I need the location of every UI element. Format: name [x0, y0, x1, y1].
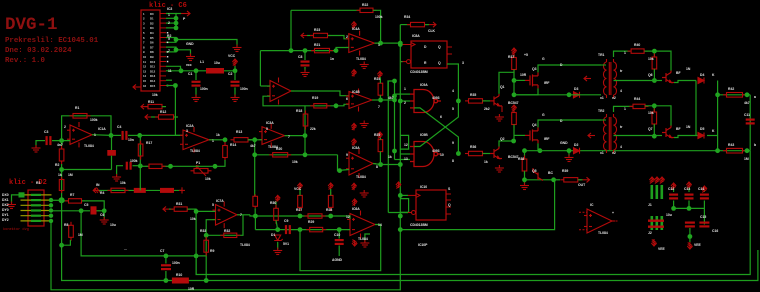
- svg-text:VCC: VCC: [228, 54, 236, 58]
- junction dot caps b: [687, 206, 692, 211]
- svg-text:IC4B: IC4B: [352, 90, 360, 94]
- capacitor C9 series: [285, 225, 291, 234]
- connector D2 dot column: [49, 198, 53, 202]
- junction dot R16 left: [138, 164, 143, 169]
- op-amp IC5A: [346, 149, 376, 178]
- ground at D1: [273, 248, 282, 255]
- junction dot power row A: [179, 68, 184, 73]
- junction dot y94 gnd node: [567, 92, 572, 97]
- diode D2 on y150: [574, 148, 580, 154]
- svg-text:5: 5: [168, 37, 170, 41]
- resistor R2b vertical: [59, 177, 64, 193]
- svg-text:R25: R25: [374, 133, 380, 137]
- wire y216 to y229 link: [254, 216, 256, 230]
- svg-text:11: 11: [143, 60, 146, 64]
- svg-text:Q3: Q3: [532, 67, 537, 71]
- svg-text:10k: 10k: [648, 57, 654, 61]
- svg-text:AGND: AGND: [332, 258, 343, 262]
- svg-text:IC1A: IC1A: [98, 127, 106, 131]
- svg-text:1k: 1k: [484, 160, 488, 164]
- op-amp IC7A: [213, 202, 241, 229]
- svg-text:10n: 10n: [128, 138, 134, 142]
- wire IC8 reset: [400, 61, 402, 63]
- junction dot clk net: [398, 41, 403, 46]
- white pin-end dots C6: [167, 32, 169, 86]
- junction dot v394 b: [392, 98, 397, 103]
- wire D2 row1 to ground: [12, 195, 22, 203]
- svg-text:3: 3: [462, 61, 464, 65]
- junction dot y179 a: [522, 177, 527, 182]
- capacitor C4 series: [111, 134, 121, 136]
- svg-text:14: 14: [378, 223, 382, 227]
- svg-text:1: 1: [404, 87, 406, 91]
- junction dot pin15: [173, 83, 178, 88]
- svg-text:R35: R35: [470, 93, 476, 97]
- header J1 pins: [651, 185, 664, 199]
- svg-text:4093: 4093: [432, 149, 440, 153]
- svg-text:R30: R30: [270, 201, 276, 205]
- svg-text:14: 14: [143, 74, 147, 78]
- row y179: [525, 179, 554, 181]
- svg-text:100k: 100k: [90, 118, 98, 122]
- svg-text:4k7: 4k7: [744, 101, 750, 105]
- svg-text:R12: R12: [160, 110, 166, 114]
- ground IC6 out: [365, 234, 370, 242]
- svg-text:100n: 100n: [172, 261, 180, 265]
- ground at node B2: [103, 211, 105, 219]
- svg-text:R21: R21: [314, 43, 320, 47]
- wire TR1 left bottom stub: [605, 94, 607, 96]
- svg-text:DY2: DY2: [2, 218, 9, 222]
- op-amp IC4A: [346, 31, 378, 56]
- svg-text:10k: 10k: [648, 111, 654, 115]
- svg-text:4: 4: [620, 145, 622, 149]
- wire C6 pin6 to ground: [176, 40, 237, 47]
- svg-text:+5: +5: [524, 53, 528, 57]
- junction dot IC4A out net: [378, 41, 383, 46]
- junction dot rail3 a: [59, 243, 64, 248]
- power arrow IC6 below: [352, 240, 357, 246]
- svg-text:G: G: [542, 57, 545, 61]
- wire y94 left part: [514, 94, 601, 96]
- resistor R14 feedback vertical: [224, 140, 226, 143]
- svg-text:a: a: [754, 95, 756, 99]
- spare op-amp IC11: [584, 209, 615, 233]
- transistor Q6: [662, 71, 674, 83]
- junction dot y229 c: [337, 227, 342, 232]
- svg-text:R24: R24: [374, 77, 380, 81]
- junction dot power row B: [194, 68, 199, 73]
- power arrows mid column b: [351, 139, 356, 146]
- junction dot rail3 c: [204, 278, 209, 283]
- svg-text:b: b: [754, 143, 756, 147]
- capacitor C8 shunt: [304, 51, 306, 60]
- junction dot y150 gnd node: [567, 148, 572, 153]
- svg-text:R3: R3: [36, 181, 40, 185]
- wire trim row: [171, 165, 216, 167]
- capacitor C4b polarized: [111, 135, 113, 150]
- row y154 with R20: [255, 154, 338, 156]
- svg-text:D5: D5: [700, 127, 704, 131]
- svg-text:TL084: TL084: [358, 237, 368, 241]
- power arrow above R27: [297, 183, 302, 189]
- svg-text:Dne: 03.02.2024: Dne: 03.02.2024: [5, 47, 72, 55]
- ground at D2: [7, 202, 16, 209]
- power arrow above IC10: [396, 182, 401, 188]
- power arrow down C15: [687, 242, 692, 249]
- svg-text:7: 7: [378, 105, 380, 109]
- svg-text:TL084: TL084: [190, 149, 200, 153]
- svg-text:klic - D2: klic - D2: [9, 179, 47, 187]
- resistor R9 vertical: [205, 235, 207, 280]
- resistor R17 vertical: [138, 141, 143, 160]
- junction dot C6 pin6: [174, 37, 179, 42]
- capacitor C3 series: [46, 136, 52, 145]
- svg-text:22k: 22k: [310, 127, 316, 131]
- svg-text:4k7: 4k7: [250, 144, 256, 148]
- svg-text:1k: 1k: [388, 155, 392, 159]
- wire top feedback IC4: [290, 10, 292, 50]
- svg-text:R27: R27: [296, 208, 302, 212]
- junction dot bA base: [652, 78, 657, 83]
- resistor R22: [357, 8, 377, 12]
- svg-text:C13: C13: [684, 187, 690, 191]
- arrows above J1: [649, 177, 654, 183]
- junction dot R2 bottom: [59, 167, 64, 172]
- junction dot y179 b: [551, 177, 556, 182]
- op-amp IC1A: [67, 122, 95, 147]
- svg-text:Q: Q: [448, 203, 451, 207]
- wire fb to inv input: [206, 220, 215, 236]
- wire TR1 base row: [614, 80, 655, 82]
- svg-text:IN: IN: [96, 183, 100, 187]
- svg-text:10R: 10R: [188, 287, 195, 291]
- Q3 drain wire: [538, 65, 601, 72]
- svg-text:10u: 10u: [110, 223, 116, 227]
- resistor R50 vertical: [253, 194, 258, 208]
- wire above D2 with parts: [99, 189, 182, 191]
- junction dot Q4 source: [538, 148, 543, 153]
- vertical node D: [304, 106, 306, 155]
- svg-text:TL084: TL084: [356, 57, 366, 61]
- resistor R29: [306, 227, 326, 231]
- svg-text:x2: x2: [612, 96, 616, 100]
- wire TR1 left top: [601, 64, 606, 66]
- svg-text:IC9B: IC9B: [420, 133, 428, 137]
- svg-text:13: 13: [404, 157, 408, 161]
- svg-text:VEE: VEE: [694, 243, 702, 247]
- svg-text:IC2A: IC2A: [186, 124, 194, 128]
- svg-text:Q1: Q1: [500, 85, 505, 89]
- svg-text:L1: L1: [200, 60, 204, 64]
- zener D1: [274, 235, 283, 241]
- svg-text:VCC: VCC: [294, 187, 302, 191]
- svg-text:CD4013BM: CD4013BM: [410, 70, 428, 74]
- transistor Q2: [490, 147, 502, 159]
- resistor R44: [630, 104, 649, 108]
- svg-text:D14: D14: [150, 79, 156, 83]
- svg-text:D5: D5: [150, 36, 154, 40]
- transistor Q5: [533, 168, 543, 181]
- junction dot IC1A output: [109, 133, 114, 138]
- ground mid column a: [360, 121, 369, 128]
- transistor Q1: [490, 94, 502, 106]
- junction dot IC7 fb: [204, 233, 209, 238]
- svg-text:1: 1: [624, 107, 626, 111]
- mosfet Q3: [525, 72, 538, 88]
- transformer TR1: [603, 59, 616, 98]
- svg-text:4: 4: [452, 89, 454, 93]
- capacitor C10 to label: [338, 230, 340, 239]
- IC10 flip-flop box bottom: [416, 190, 446, 220]
- wire C6 pin2 stub: [166, 17, 176, 19]
- svg-text:10u: 10u: [666, 213, 672, 217]
- op-amp IC4B: [346, 89, 375, 112]
- wire rail1: [81, 211, 206, 256]
- svg-text:R22: R22: [362, 3, 368, 7]
- connector SV1 klic-C6 box: [141, 10, 160, 91]
- resistor R8 vertical: [69, 222, 74, 241]
- ground branch at C4c: [117, 166, 123, 176]
- wire Q7 emitter row: [674, 136, 700, 138]
- wire TR2 right top to R44: [614, 106, 634, 112]
- feedback loop IC6: [300, 225, 381, 271]
- svg-text:C9: C9: [284, 219, 288, 223]
- svg-text:100n: 100n: [200, 87, 208, 91]
- svg-text:D2: D2: [574, 143, 578, 147]
- wire D2 out right: [61, 200, 63, 245]
- arrow flag R39: [583, 177, 590, 182]
- row to IC4B input: [305, 104, 349, 106]
- row y50 long: [260, 50, 337, 52]
- wire rail4: [51, 25, 400, 290]
- svg-text:IC6A: IC6A: [352, 207, 360, 211]
- wire bB collector: [645, 106, 671, 126]
- resistor R37b vertical: [513, 111, 515, 113]
- wire Q6 emitter row: [674, 81, 696, 83]
- svg-text:1: 1: [94, 133, 96, 137]
- connector SV1 pins: [160, 14, 166, 86]
- junction dot y94 right: [745, 92, 750, 97]
- svg-text:1k: 1k: [58, 173, 62, 177]
- resistor R11 row with arrow: [141, 104, 147, 109]
- svg-text:100k: 100k: [130, 159, 138, 163]
- wire opX output: [291, 91, 349, 96]
- svg-text:R23: R23: [314, 28, 320, 32]
- power arrow IC4 bottom: [351, 70, 356, 77]
- junction dot y216 c: [328, 214, 333, 219]
- resistor R32: [220, 233, 240, 237]
- wire v394 top stub: [388, 81, 395, 96]
- resistor R37 vertical: [513, 55, 515, 57]
- junction dot IC4B out: [378, 98, 383, 103]
- svg-text:IRF: IRF: [544, 81, 549, 85]
- svg-text:R32: R32: [224, 229, 230, 233]
- vertical net v394: [394, 81, 396, 160]
- wire node C to IC3A: [248, 139, 262, 141]
- resistor R39: [554, 179, 560, 181]
- svg-text:15: 15: [143, 79, 147, 83]
- resistor R4: [108, 188, 129, 192]
- resistor R12 row with arrow: [145, 114, 151, 119]
- diode D5: [698, 133, 704, 139]
- svg-text:R43: R43: [728, 143, 734, 147]
- wire IC4A inv in: [336, 48, 349, 51]
- svg-text:D3: D3: [574, 87, 578, 91]
- wire IC8 q out: [447, 64, 458, 101]
- connector SV1 pin labels: [143, 12, 156, 88]
- capacitor C12: [673, 188, 675, 192]
- svg-text:10R: 10R: [520, 73, 527, 77]
- ground at C3: [36, 141, 38, 147]
- resistor R40: [628, 49, 648, 53]
- svg-text:D8: D8: [150, 50, 154, 54]
- wire TR1 right top to R40: [614, 51, 631, 57]
- junction dot IC4A in: [334, 48, 339, 53]
- svg-text:10k: 10k: [152, 93, 158, 97]
- svg-text:C12: C12: [668, 187, 674, 191]
- svg-text:D15: D15: [150, 84, 156, 88]
- wire opX input B loop: [263, 96, 305, 106]
- svg-text:BC547: BC547: [508, 101, 519, 105]
- wire long mid net: [400, 180, 554, 230]
- resistor R24 vertical: [378, 80, 383, 99]
- svg-text:2: 2: [168, 21, 170, 25]
- svg-text:...: ...: [124, 247, 127, 251]
- svg-text:10u: 10u: [214, 61, 220, 65]
- power arrow above R28: [328, 183, 333, 189]
- svg-text:D10: D10: [150, 60, 156, 64]
- small loop right of v400 a: [400, 135, 408, 149]
- svg-text:Q6: Q6: [648, 73, 653, 77]
- wire C6 power row: [166, 70, 235, 72]
- arrow flag TR1: [584, 76, 591, 81]
- junction dot node D: [303, 133, 308, 138]
- junction dot v400 gate: [398, 99, 403, 104]
- svg-text:D9: D9: [150, 55, 154, 59]
- svg-text:D7: D7: [150, 45, 154, 49]
- svg-text:Rev.: 1.0: Rev.: 1.0: [5, 57, 45, 65]
- wire IC4A out: [374, 42, 400, 44]
- svg-text:C3: C3: [44, 130, 48, 134]
- svg-text:3: 3: [186, 129, 188, 133]
- junction dot trim left: [168, 164, 173, 169]
- svg-text:Q7: Q7: [648, 127, 653, 131]
- resistor R10 filled on rail3: [172, 278, 189, 284]
- svg-text:D1: D1: [271, 233, 275, 237]
- cross-coupling wires: [414, 101, 458, 147]
- svg-text:4n7: 4n7: [57, 143, 63, 147]
- wire rail3: [62, 245, 758, 280]
- transistor Q7: [662, 126, 674, 138]
- resistor R31: [171, 207, 191, 211]
- svg-text:R13: R13: [236, 130, 242, 134]
- svg-text:C1: C1: [188, 72, 192, 76]
- svg-text:C2: C2: [228, 72, 232, 76]
- junction dot bA top: [652, 49, 657, 54]
- junction dot y216 a: [253, 214, 258, 219]
- svg-text:10k: 10k: [205, 177, 211, 181]
- wire D2 to R7 row: [51, 199, 62, 201]
- junction dot IC10 b: [398, 214, 403, 219]
- svg-text:vcc: vcc: [186, 63, 192, 67]
- wire TR2 base row: [614, 135, 655, 137]
- junction dot y50 b: [303, 48, 308, 53]
- junction dot v394 a: [392, 79, 397, 84]
- wire IC4B out: [372, 99, 381, 101]
- svg-text:6: 6: [346, 97, 348, 101]
- svg-text:D3: D3: [150, 26, 154, 30]
- svg-text:C10: C10: [334, 233, 340, 237]
- svg-text:IC9A: IC9A: [420, 83, 428, 87]
- svg-text:Q2: Q2: [500, 137, 505, 141]
- wire C6 pin6 pair: [166, 38, 176, 43]
- svg-text:CD4013BM: CD4013BM: [410, 223, 428, 227]
- svg-text:7: 7: [168, 49, 170, 53]
- wire C6 pin3 stub: [166, 22, 176, 24]
- svg-text:TL084: TL084: [240, 243, 250, 247]
- transformer TR2: [603, 114, 616, 153]
- vertical net v388: [387, 81, 389, 213]
- wire C6 pin14 stub: [166, 79, 172, 81]
- svg-text:100k: 100k: [375, 15, 383, 19]
- svg-text:C11: C11: [744, 113, 750, 117]
- wire C6 pin12 to power row: [166, 66, 181, 71]
- junction dot node D2: [303, 152, 308, 157]
- resistor R1 feedback: [70, 114, 91, 119]
- row y150 long: [525, 150, 751, 152]
- junction dot IC5A out: [378, 162, 383, 167]
- resistor R20: [269, 153, 291, 157]
- svg-text:+: +: [612, 211, 614, 215]
- power arrow IC6 top: [352, 199, 357, 206]
- Q1 emitter to ground: [501, 106, 503, 112]
- svg-text:DY0: DY0: [2, 208, 9, 212]
- feedback IC7: [206, 215, 243, 236]
- svg-text:R8: R8: [64, 223, 68, 227]
- capacitor C11 series: [746, 119, 755, 125]
- svg-text:1M: 1M: [744, 157, 749, 161]
- svg-text:Q5: Q5: [532, 169, 537, 173]
- svg-text:x2: x2: [612, 151, 616, 155]
- svg-text:TR2: TR2: [598, 109, 605, 113]
- svg-text:C6: C6: [100, 213, 104, 217]
- svg-text:C14: C14: [698, 187, 704, 191]
- svg-text:IC8A: IC8A: [412, 34, 420, 38]
- row y94 right: [718, 94, 751, 96]
- wire IC2A output: [209, 139, 225, 141]
- svg-text:IC10: IC10: [420, 185, 427, 189]
- svg-text:R39: R39: [562, 169, 568, 173]
- svg-text:konektor dvg: konektor dvg: [3, 227, 29, 232]
- svg-text:R40: R40: [634, 43, 640, 47]
- resistor R19: [310, 104, 330, 108]
- junction dot row4a: [334, 103, 339, 108]
- svg-text:11: 11: [168, 69, 172, 73]
- resistor R21: [311, 48, 333, 52]
- wire IC7 output: [237, 214, 250, 216]
- svg-text:OUT: OUT: [578, 183, 586, 187]
- junction dot power row C: [233, 68, 238, 73]
- trimmer R15: [191, 169, 212, 174]
- inductor L1: [206, 68, 224, 74]
- junction dot gate1 out: [456, 99, 461, 104]
- svg-text:TL084: TL084: [598, 231, 608, 235]
- wire clk net to IC8: [400, 44, 402, 46]
- wire gate1 in b: [400, 100, 410, 102]
- op-amp IC6A bottom: [347, 211, 378, 239]
- svg-text:1n: 1n: [330, 57, 334, 61]
